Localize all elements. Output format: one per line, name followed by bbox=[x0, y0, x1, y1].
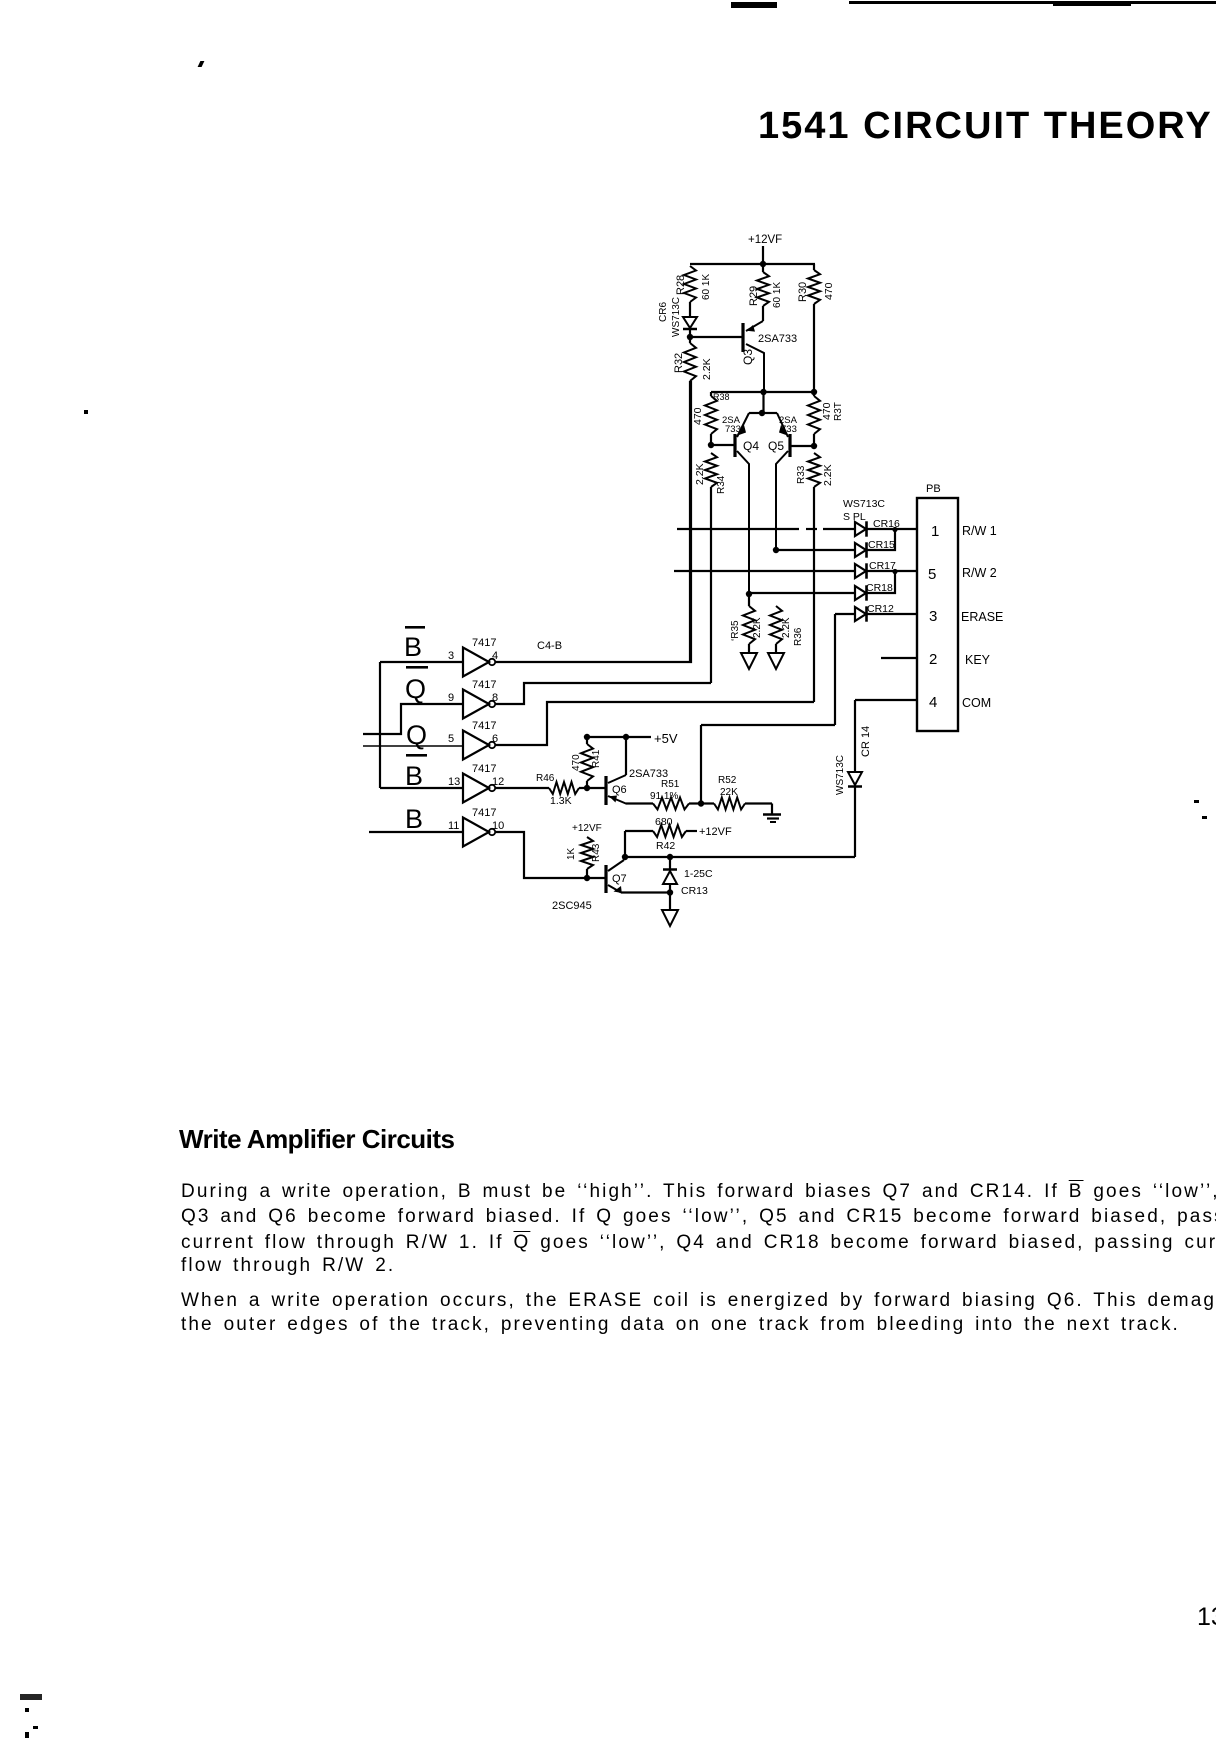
junction CR15 R/W1 bbox=[892, 527, 897, 532]
resistor R46 1.3K bbox=[536, 773, 579, 807]
svg-text:R29: R29 bbox=[748, 286, 760, 306]
svg-text:22K: 22K bbox=[720, 787, 738, 798]
ground arrow below Q7 bbox=[662, 910, 678, 926]
svg-text:7417: 7417 bbox=[472, 763, 496, 775]
svg-text:4: 4 bbox=[492, 650, 498, 662]
junction CR18 R/W2 bbox=[892, 569, 897, 574]
node Bbar overline 2 bbox=[406, 754, 427, 757]
svg-text:1.3K: 1.3K bbox=[550, 795, 572, 807]
svg-text:R51: R51 bbox=[661, 779, 680, 790]
wire R51 to node bbox=[689, 802, 714, 804]
svg-text:+12VF: +12VF bbox=[748, 234, 782, 246]
svg-text:R42: R42 bbox=[656, 840, 675, 852]
wire R36 to gnd bbox=[775, 644, 777, 653]
junction Q6 base R41 bbox=[584, 785, 590, 791]
svg-text:2SC945: 2SC945 bbox=[552, 900, 592, 912]
paragraph 1 line 1 bbox=[181, 1182, 1216, 1201]
svg-text:680: 680 bbox=[655, 816, 673, 828]
svg-text:5: 5 bbox=[448, 733, 454, 745]
wire R37 to Q5 base node bbox=[813, 434, 815, 446]
diode CR17 bbox=[855, 560, 896, 579]
svg-text:2.2K: 2.2K bbox=[701, 358, 713, 380]
svg-text:470: 470 bbox=[821, 402, 833, 420]
wire R42 left lead bbox=[625, 830, 653, 832]
svg-text:2.2K: 2.2K bbox=[752, 617, 763, 638]
svg-text:60 1K: 60 1K bbox=[701, 274, 712, 300]
wire buffer2 output to R34 bbox=[495, 683, 711, 704]
wire emitter stub right bbox=[763, 412, 777, 414]
transistor Q5 2SA733 bbox=[768, 413, 798, 550]
wire rail2 to R38 bbox=[710, 392, 712, 396]
svg-text:11: 11 bbox=[448, 820, 459, 832]
svg-text:+12VF: +12VF bbox=[572, 823, 602, 834]
wire CR15 anode line bbox=[776, 549, 855, 551]
buffer U3 7417 pins 5-6 bbox=[448, 720, 498, 760]
wire CR18 to R/W2 join bbox=[866, 571, 895, 593]
wire CR16 to pin1 bbox=[866, 528, 917, 530]
wire CR18node to R35 bbox=[748, 594, 750, 606]
svg-text:3: 3 bbox=[448, 650, 454, 662]
page title bbox=[758, 107, 1213, 145]
svg-text:R/W 2: R/W 2 bbox=[962, 566, 997, 580]
resistor R34 2.2K bbox=[694, 453, 727, 494]
paragraph 1 line 4 bbox=[181, 1256, 395, 1275]
wire COM pin4 bbox=[855, 699, 917, 701]
svg-text:R36: R36 bbox=[793, 627, 804, 646]
wire Q5 base bbox=[790, 445, 814, 447]
ground arrow below R36 bbox=[768, 653, 784, 669]
wire CR12 anode line bbox=[835, 613, 855, 615]
svg-text:733: 733 bbox=[781, 424, 797, 435]
wire buffer3 output to R33 bbox=[495, 702, 814, 745]
diode CR13 bbox=[663, 868, 713, 897]
svg-text:3: 3 bbox=[929, 608, 937, 625]
wire R42 drop bbox=[624, 831, 626, 857]
wire Q3 base bbox=[690, 336, 743, 338]
svg-text:CR13: CR13 bbox=[681, 885, 708, 897]
wire R30 down to rail2 bbox=[813, 304, 815, 392]
svg-text:733: 733 bbox=[725, 424, 741, 435]
wire buffer1 output to R32 node bbox=[495, 381, 691, 662]
svg-text:7417: 7417 bbox=[472, 679, 496, 691]
svg-text:CR 14: CR 14 bbox=[860, 726, 872, 757]
resistor R30 bbox=[797, 270, 835, 304]
junction Q4 collector CR18 bbox=[746, 591, 752, 597]
wire rail to R29 bbox=[762, 264, 764, 272]
svg-text:R33: R33 bbox=[796, 465, 807, 484]
svg-text:R/W 1: R/W 1 bbox=[962, 524, 997, 538]
svg-text:8: 8 bbox=[492, 692, 498, 704]
svg-text:R43: R43 bbox=[591, 843, 602, 862]
svg-text:9: 9 bbox=[448, 692, 454, 704]
scan specks bottom left bbox=[20, 1694, 42, 1700]
wire CR13 top lead bbox=[669, 857, 671, 869]
paragraph 2 line 2 bbox=[181, 1315, 1180, 1334]
wire R35 to gnd bbox=[748, 644, 750, 653]
wire KEY stub bbox=[881, 657, 917, 659]
junction rail2 right bbox=[811, 389, 817, 395]
connector PB box bbox=[917, 483, 958, 731]
svg-text:WS713C: WS713C bbox=[843, 498, 885, 510]
node Bbar overline 1 bbox=[405, 626, 425, 629]
wire R46 to Q6 base bbox=[579, 787, 605, 789]
wire collector bus bbox=[624, 856, 855, 858]
wire rail to R30 bbox=[813, 264, 815, 270]
wire R32 down to buffer1 out bbox=[689, 381, 691, 662]
page number bbox=[1197, 1605, 1216, 1630]
svg-text:7417: 7417 bbox=[472, 637, 496, 649]
transistor Q4 2SA733 bbox=[722, 413, 759, 594]
junction rail2 center bbox=[760, 389, 766, 395]
resistor R33 2.2K bbox=[796, 453, 834, 487]
wire R/W1 line seg1 bbox=[677, 528, 799, 530]
svg-text:Q7: Q7 bbox=[612, 873, 627, 885]
wire Q6 emitter to R51 bbox=[627, 802, 653, 805]
wire R41 top bbox=[586, 737, 588, 744]
svg-text:R32: R32 bbox=[673, 353, 685, 373]
transistor Q7 2SC945 bbox=[552, 860, 627, 912]
wire Q input bbox=[363, 745, 463, 747]
svg-text:R30: R30 bbox=[797, 282, 809, 302]
paragraph 1 line 2 bbox=[181, 1207, 1216, 1226]
wire +12VF lead bbox=[762, 246, 764, 265]
svg-text:C4-B: C4-B bbox=[537, 640, 562, 652]
scan artifact: top edge thick segment bbox=[1053, 1, 1131, 6]
svg-text:CR6: CR6 bbox=[658, 302, 669, 322]
svg-text:WS713C: WS713C bbox=[835, 755, 846, 795]
junction Q7 emitter CR13 bbox=[667, 889, 673, 895]
wire center to pair node bbox=[762, 392, 764, 413]
scan speck left margin bbox=[84, 410, 88, 414]
wire Bbar bus vertical bbox=[379, 662, 381, 788]
svg-text:R52: R52 bbox=[718, 775, 737, 786]
svg-text:470: 470 bbox=[823, 282, 835, 300]
wire +5V rail bbox=[587, 736, 651, 738]
svg-text:1K: 1K bbox=[566, 847, 577, 860]
svg-text:91 1%: 91 1% bbox=[650, 791, 678, 802]
paragraph 2 line 1 bbox=[181, 1291, 1216, 1310]
wire Q4 base bbox=[711, 444, 735, 446]
resistor R51 91 1% bbox=[650, 779, 689, 810]
wire erase node up bbox=[700, 725, 702, 804]
svg-text:470: 470 bbox=[692, 407, 704, 425]
svg-text:WS713C: WS713C bbox=[671, 297, 682, 337]
wire R38 to Q4 base node bbox=[710, 434, 712, 446]
ground bar symbol bbox=[763, 804, 781, 823]
wire R28 to CR6 bbox=[689, 302, 691, 317]
wire emitter stub left bbox=[749, 412, 763, 414]
diode CR18 bbox=[855, 582, 893, 601]
wire R34 down to Qbar line bbox=[710, 487, 712, 683]
resistor R37 470 bbox=[808, 396, 844, 434]
ground arrow below R35 bbox=[741, 653, 757, 669]
wire R33 down to Q line bbox=[813, 487, 815, 702]
svg-text:470: 470 bbox=[571, 754, 582, 771]
resistor R28 bbox=[675, 266, 712, 302]
svg-text:13: 13 bbox=[448, 776, 460, 788]
svg-text:B: B bbox=[405, 761, 423, 791]
resistor R32 2.2K bbox=[673, 343, 713, 381]
diode CR6 bbox=[658, 297, 697, 337]
diode CR14 WS713C bbox=[835, 726, 872, 795]
svg-text:Q6: Q6 bbox=[612, 784, 627, 796]
wire B input bbox=[369, 831, 463, 833]
node Qbar overline bbox=[406, 666, 428, 669]
scan dashes right margin bbox=[1194, 800, 1199, 803]
wire Q7 emitter bbox=[621, 891, 670, 893]
svg-text:PB: PB bbox=[926, 483, 941, 495]
wire buffer4 output bbox=[495, 787, 549, 789]
resistor R41 470 bbox=[571, 744, 602, 781]
wire pin4 down bbox=[854, 700, 856, 772]
svg-text:R41: R41 bbox=[591, 749, 602, 768]
svg-text:B: B bbox=[405, 804, 423, 834]
wire CR12 to pin3 bbox=[866, 613, 917, 615]
svg-text:ERASE: ERASE bbox=[961, 610, 1003, 624]
resistor R35 2.2K bbox=[730, 606, 763, 644]
junction Q5 base node bbox=[811, 443, 817, 449]
wire R/W1 line dash bbox=[806, 528, 817, 530]
resistor R42 680 bbox=[653, 816, 686, 852]
svg-text:5: 5 bbox=[928, 566, 936, 583]
wire CR18 anode line bbox=[749, 592, 855, 594]
svg-text:7417: 7417 bbox=[472, 807, 496, 819]
wire CR13 bottom lead bbox=[669, 884, 671, 893]
svg-text:60 1K: 60 1K bbox=[772, 282, 783, 308]
svg-text:7417: 7417 bbox=[472, 720, 496, 732]
junction Q5 collector CR15 bbox=[773, 547, 779, 553]
resistor R29 bbox=[748, 272, 783, 308]
junction R41 +5V bbox=[584, 734, 590, 740]
wire top +12V rail bbox=[690, 263, 815, 265]
junction Q4 base node bbox=[708, 442, 714, 448]
svg-text:2: 2 bbox=[929, 651, 937, 668]
svg-text:Q3: Q3 bbox=[741, 349, 755, 365]
section heading bbox=[179, 1126, 455, 1152]
wire emitter to gnd bbox=[669, 893, 671, 911]
wire R52 to gnd bbox=[745, 802, 772, 804]
wire rail2 to R37 bbox=[813, 392, 815, 396]
wire buffer4 input bbox=[380, 787, 463, 789]
resistor R43 1K bbox=[566, 837, 602, 869]
svg-text:10: 10 bbox=[492, 820, 504, 832]
svg-text:B: B bbox=[404, 632, 422, 662]
svg-text:2.2K: 2.2K bbox=[781, 617, 792, 638]
wire CR6 to node B3 bbox=[689, 329, 691, 343]
svg-text:‘R35: ‘R35 bbox=[730, 620, 741, 641]
scan artifact: tick mark top left bbox=[198, 61, 205, 67]
svg-text:Q: Q bbox=[405, 674, 426, 704]
svg-text:R46: R46 bbox=[536, 773, 555, 784]
svg-text:12: 12 bbox=[492, 776, 504, 788]
svg-text:1: 1 bbox=[931, 523, 939, 540]
wire R29 to Q3 emitter bbox=[762, 306, 764, 321]
buffer U1 7417 pins 3-4 bbox=[448, 637, 498, 677]
wire Q6 collector bbox=[625, 737, 627, 775]
transistor Q6 2SA733 bbox=[606, 768, 668, 805]
diode CR12 bbox=[855, 603, 894, 622]
wire R/W1 line seg2 bbox=[823, 528, 855, 530]
junction +12VF rail bbox=[760, 261, 766, 267]
svg-text:Q4: Q4 bbox=[743, 439, 759, 453]
svg-text:4: 4 bbox=[929, 694, 937, 711]
wire erase horizontal bbox=[701, 724, 835, 726]
wire R42 right lead bbox=[686, 830, 697, 832]
buffer U5 7417 pins 11-10 bbox=[448, 807, 504, 847]
buffer U4 7417 pins 13-12 bbox=[448, 763, 504, 803]
wire R/W2 line bbox=[674, 570, 855, 572]
wire erase up to CR12 bbox=[834, 614, 836, 725]
diode CR16 bbox=[855, 518, 900, 537]
wire rail2 bbox=[711, 391, 814, 393]
paragraph 1 line 3 bbox=[181, 1233, 1216, 1252]
wire CR15 to R/W1 join bbox=[866, 529, 895, 550]
svg-text:KEY: KEY bbox=[965, 653, 991, 667]
svg-text:R38: R38 bbox=[713, 392, 730, 402]
transistor Q3 2SA733 bbox=[741, 321, 797, 392]
svg-text:COM: COM bbox=[962, 696, 991, 710]
wire R43 bottom bbox=[586, 869, 588, 878]
buffer U2 7417 pins 9-8 bbox=[448, 679, 498, 719]
junction Q7 base R43 bbox=[584, 875, 590, 881]
junction Q6 collector +5V bbox=[623, 734, 629, 740]
svg-text:R3T: R3T bbox=[833, 402, 844, 421]
svg-text:2.2K: 2.2K bbox=[822, 464, 834, 486]
svg-text:+5V: +5V bbox=[654, 731, 678, 746]
wire CR17 to pin5 bbox=[866, 570, 917, 572]
svg-text:1-25C: 1-25C bbox=[684, 868, 713, 880]
svg-text:+12VF: +12VF bbox=[699, 826, 732, 838]
resistor R52 22K bbox=[714, 775, 745, 810]
wire CR14 down bbox=[854, 787, 856, 857]
wire Qbar input feed bbox=[363, 704, 463, 734]
svg-text:2.2K: 2.2K bbox=[694, 463, 706, 485]
diode CR15 bbox=[855, 539, 895, 558]
resistor R38 470 bbox=[692, 392, 730, 434]
resistor R36 2.2K bbox=[770, 606, 804, 646]
svg-text:2SA733: 2SA733 bbox=[758, 333, 797, 345]
svg-text:R28: R28 bbox=[675, 275, 687, 295]
svg-text:Q5: Q5 bbox=[768, 439, 784, 453]
junction erase drive node bbox=[698, 800, 704, 806]
wire buffer5 output to Q7 base bbox=[495, 832, 605, 878]
scan artifact: top edge line right bbox=[849, 1, 1216, 4]
wire R41 bottom bbox=[586, 781, 588, 788]
junction diff pair emitters bbox=[759, 410, 765, 416]
junction CR13 node top bbox=[667, 854, 673, 860]
scan artifact: top edge bar left bbox=[731, 2, 777, 8]
junction Q7 collector node bbox=[622, 854, 628, 860]
svg-text:6: 6 bbox=[492, 733, 498, 745]
junction Q3 base node bbox=[687, 334, 693, 340]
wire buffer1 input bbox=[380, 661, 463, 663]
svg-text:R34: R34 bbox=[716, 475, 727, 494]
